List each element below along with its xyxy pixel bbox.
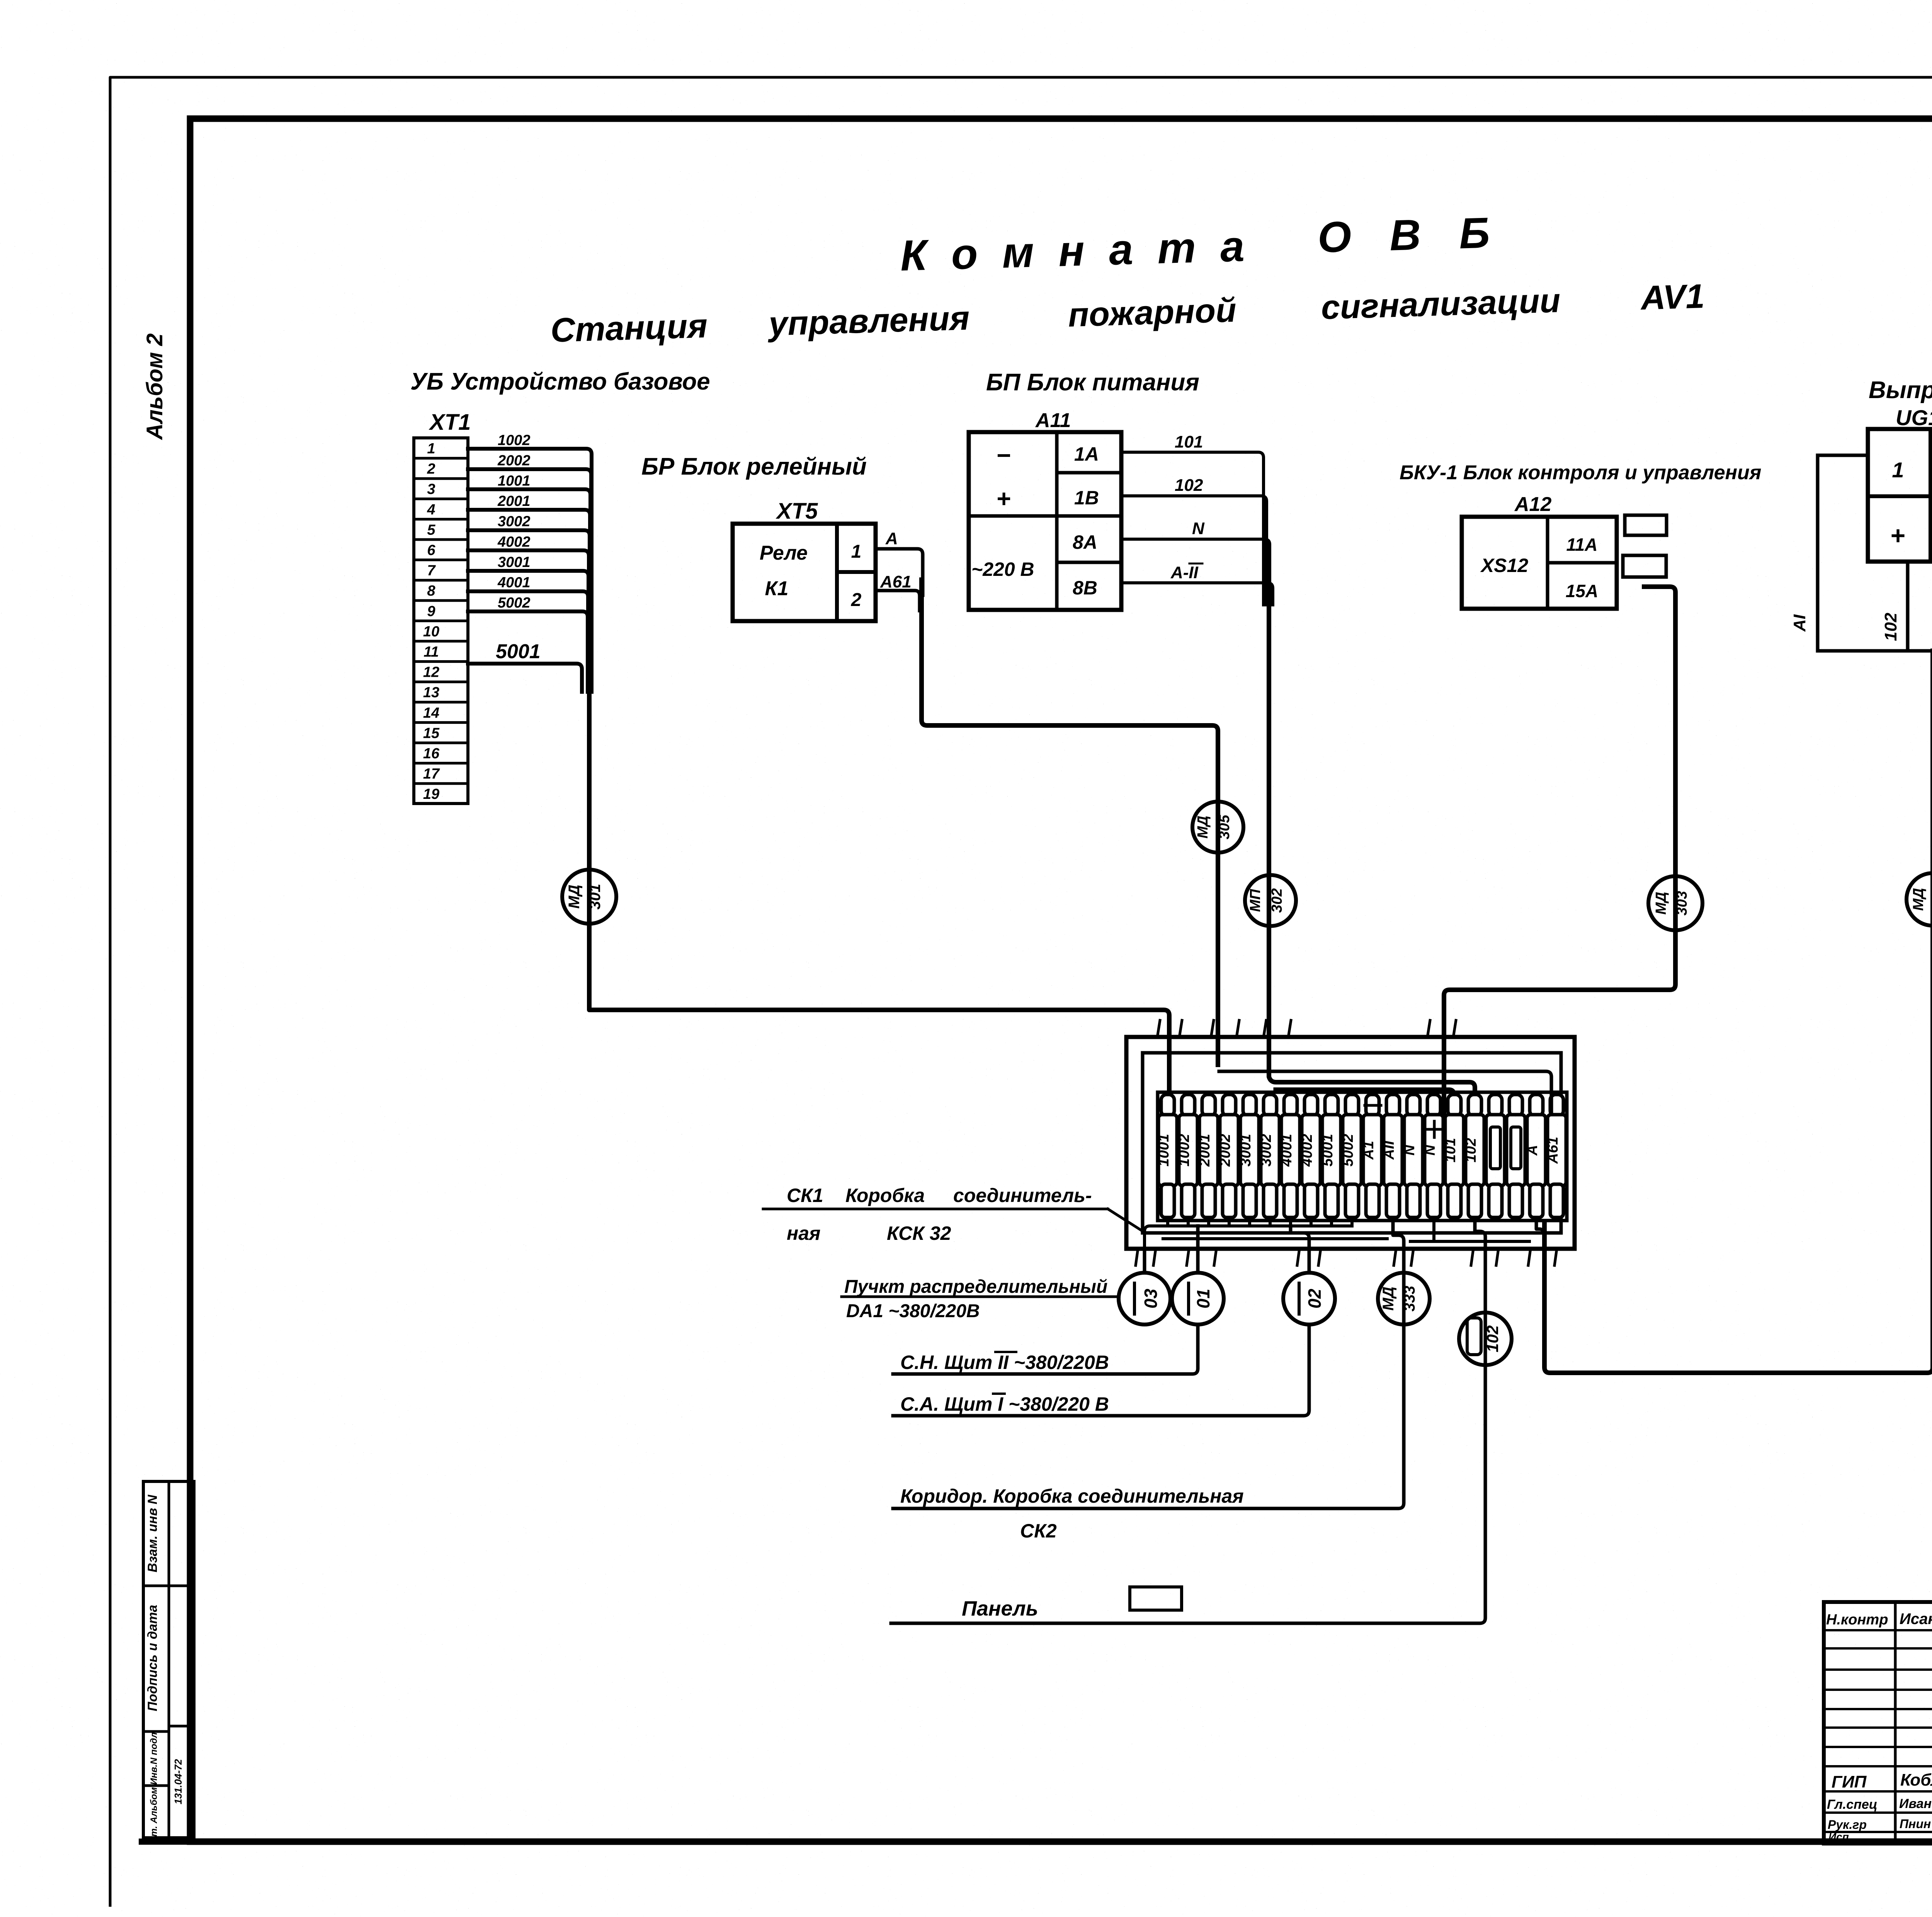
terminal block XT1	[414, 438, 468, 804]
cable marker 02 (С.А. Щит I)	[1283, 1249, 1335, 1325]
cable exit tick (bottom)	[1187, 1249, 1189, 1265]
cable exit tick (bottom)	[1554, 1249, 1557, 1265]
CK1 terminal 1002	[1176, 1095, 1197, 1217]
cable exit tick (bottom)	[1318, 1249, 1321, 1265]
wire БП pin 8А	[1121, 539, 1270, 605]
CK1 terminal 4001	[1279, 1095, 1300, 1217]
CK1 terminal 5001	[1320, 1095, 1341, 1217]
label: Панель	[962, 1587, 1182, 1620]
CK1 terminal N	[1422, 1095, 1443, 1217]
wire БП branch to slot 101	[1275, 1089, 1454, 1115]
wire БП pin 1А	[1121, 452, 1264, 605]
wire to Коридор СК2	[893, 1326, 1404, 1508]
wire to С.Н. Щит II	[893, 1326, 1198, 1374]
cable marker МД305	[1192, 802, 1243, 853]
CK1 terminal 5002	[1340, 1095, 1361, 1217]
CK1 terminal А	[1524, 1095, 1546, 1217]
cable marker МД303	[1648, 876, 1702, 930]
junction box CK1 inner case	[1143, 1053, 1561, 1233]
CK1 terminal N	[1401, 1095, 1423, 1217]
cable exit tick (bottom)	[1394, 1249, 1396, 1265]
polarity mark − (slot А1)	[1365, 1104, 1381, 1107]
connector stub 1 (11А)	[1625, 515, 1667, 535]
rectifier UG1 connection loop	[1818, 455, 1932, 651]
cable exit tick (bottom)	[1214, 1249, 1216, 1265]
junction box CK1 outer case	[1126, 1037, 1575, 1249]
CK1 terminal 102	[1463, 1095, 1484, 1217]
cable exit tick (bottom)	[1153, 1249, 1156, 1265]
internal wire N to collector	[1432, 1217, 1435, 1241]
CK1 terminal 1001	[1156, 1095, 1177, 1217]
cable exit tick (bottom)	[1471, 1249, 1473, 1265]
wire XT1.6 net 4002	[468, 550, 589, 692]
connector stub 2 (15А)	[1623, 555, 1666, 577]
title: Комната ОВБ	[900, 208, 1504, 280]
cable exit tick (bottom)	[1528, 1249, 1531, 1265]
wire XT5.2 А61	[876, 591, 920, 611]
cable marker МД333 (Коридор СК2)	[1378, 1249, 1430, 1330]
cable marker МД301	[562, 870, 616, 924]
terminal strip body	[1158, 1092, 1567, 1221]
wire to С.А. Щит I	[893, 1326, 1309, 1416]
label: С.Н. Щит II ~380/220В	[900, 1352, 1109, 1374]
wire XT5.1 А	[876, 549, 923, 595]
wire XT1.1 net 1002	[468, 449, 592, 692]
cable marker МД304	[1906, 873, 1932, 926]
net label А-II	[1170, 563, 1202, 582]
internal wire slot 102 to exit Панель	[1475, 1217, 1485, 1249]
subtitle: Станция управления пожарной сигнализации AV1	[550, 277, 1705, 349]
relay block XT5 (Реле К1)	[733, 524, 876, 621]
wire bundle XT5 to CK1 (cable 305)	[922, 580, 1218, 1065]
CK1 terminal АII	[1381, 1095, 1402, 1217]
left stamp column frame	[143, 1481, 194, 1838]
cable marker МП302	[1245, 875, 1296, 926]
wire UG1 + (102)	[1906, 562, 1910, 651]
internal collector wire (bottom left)	[1145, 1217, 1168, 1249]
wire БП pin 8В	[1121, 583, 1273, 605]
internal wire to exit 333	[1393, 1217, 1404, 1249]
cable entry tick (top)	[1236, 1020, 1239, 1037]
internal wire to exit 01	[1196, 1226, 1200, 1249]
wire bundle БП to CK1 (cable 302)	[1269, 597, 1475, 1115]
cable exit tick (bottom)	[1411, 1249, 1413, 1265]
CK1 terminal 2001	[1197, 1095, 1218, 1217]
rectifier UG1 block	[1868, 429, 1932, 562]
internal wire slot А to cable 304	[1536, 1217, 1544, 1249]
wire XT1.5 net 3002	[468, 530, 590, 692]
cable exit tick (bottom)	[1496, 1249, 1498, 1265]
internal collector wire (bottom right)	[1410, 1240, 1529, 1243]
CK1 terminal 2002	[1217, 1095, 1238, 1217]
CK1 terminal 3001	[1238, 1095, 1259, 1217]
wire XT1.7 net 3001	[468, 571, 588, 692]
wire bundle XT1 to CK1 (cable 301)	[589, 638, 1169, 1115]
wire XT1.9 net 5002	[468, 611, 588, 692]
wire to Панель	[891, 1366, 1485, 1623]
control block БКУ-1 А12	[1462, 517, 1617, 609]
label: С.А. Щит I ~380/220 В	[900, 1393, 1109, 1415]
power supply block БП А11	[969, 432, 1121, 610]
cable entry tick (top)	[1453, 1020, 1456, 1037]
cable entry tick (top)	[1157, 1020, 1160, 1037]
internal wire to exit 02	[1291, 1226, 1309, 1249]
wire XT1.4 net 2001	[468, 510, 590, 692]
label: Коридор. Коробка соединительная СК2	[900, 1485, 1244, 1542]
internal collector wire (bottom)	[1163, 1237, 1387, 1240]
cable exit tick (bottom)	[1136, 1249, 1138, 1265]
cable marker 01 (С.Н. Щит II)	[1172, 1249, 1224, 1325]
internal wire slots 1002-5002 to collector	[1168, 1217, 1352, 1226]
CK1 terminal fuse2	[1507, 1095, 1525, 1217]
frame bottom extension	[142, 1839, 193, 1845]
CK1 terminal А1	[1361, 1095, 1382, 1217]
wire XT1.3 net 1001	[468, 489, 590, 692]
label: Пучкт распределительный DА1	[842, 1277, 1117, 1321]
CK1 terminal fuse1	[1486, 1095, 1505, 1217]
internal wire А61 drop	[1219, 1071, 1551, 1115]
cable entry tick (top)	[1211, 1020, 1214, 1037]
label: СК1 Коробка соединительная КСК 32	[763, 1185, 1143, 1244]
wire БКУ to CK1 (cable 303)	[1444, 587, 1675, 1115]
wire XT1.11 net 5001	[468, 664, 582, 692]
cable exit tick (bottom)	[1297, 1249, 1299, 1265]
cable entry tick (top)	[1288, 1020, 1291, 1037]
cable entry tick (top)	[1427, 1020, 1430, 1037]
cable marker 102 (Панель)	[1459, 1249, 1512, 1370]
CK1 terminal 101	[1442, 1095, 1464, 1217]
cable entry tick (top)	[1179, 1020, 1182, 1037]
wire БП pin 1В	[1121, 496, 1267, 605]
cable entry tick (top)	[1264, 1020, 1266, 1037]
CK1 terminal 4002	[1299, 1095, 1320, 1217]
wire XT1.8 net 4001	[468, 591, 588, 692]
CK1 terminal 3002	[1258, 1095, 1279, 1217]
wire XT1.2 net 2002	[468, 469, 591, 692]
cable marker 03 (Пучкт распределительный)	[1119, 1249, 1170, 1325]
title block signature table	[1824, 1602, 1932, 1844]
wire bundle UG1 to CK1 (cable 304)	[1544, 651, 1932, 1373]
CK1 terminal А61	[1545, 1095, 1566, 1217]
polarity mark + (slot N)	[1426, 1121, 1442, 1137]
